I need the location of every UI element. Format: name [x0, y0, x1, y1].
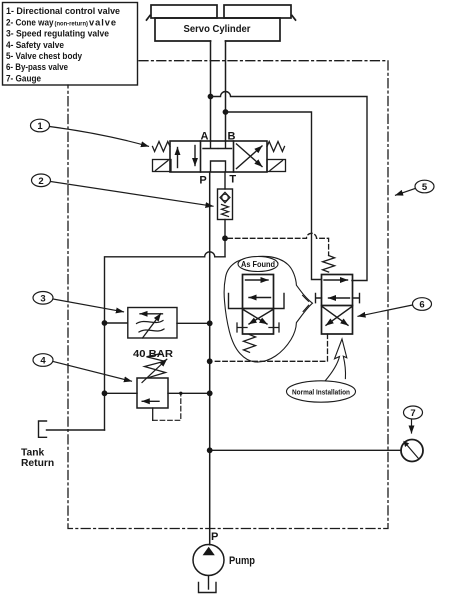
svg-text:3- Speed regulating valve: 3- Speed regulating valve: [6, 29, 109, 39]
port B T-bar: [219, 141, 232, 149]
port labels: [199, 131, 236, 187]
label 5: [415, 180, 434, 193]
wire B line (right cylinder pipe): [225, 41, 227, 141]
by-pass valve crossed arrows: [322, 307, 348, 326]
servo cylinder: [147, 5, 296, 41]
dashed drain from by-pass valve bottom: [213, 334, 328, 361]
safety valve U4: [137, 378, 168, 408]
label 2: [32, 174, 51, 187]
As Found valve port brackets: [229, 294, 285, 309]
by-pass valve right port T-bar: [353, 294, 360, 303]
blocked P T ports: [211, 161, 226, 172]
left solenoid: [153, 160, 172, 172]
Normal Installation callout arrow: [325, 339, 347, 381]
svg-text:1: 1: [37, 121, 43, 132]
svg-text:Normal Installation: Normal Installation: [292, 387, 350, 396]
by-pass valve mid flow arrow: [329, 297, 350, 299]
speed regulating valve U3: [105, 322, 128, 324]
svg-text:valve: valve: [89, 17, 116, 27]
Normal Installation bubble: [287, 381, 356, 402]
node gauge junction: [207, 447, 213, 453]
spring above by-pass valve: [323, 256, 335, 273]
wire pump to tank: [208, 576, 210, 590]
safety valve flow arrow: [142, 400, 159, 402]
node P line safety: [207, 390, 213, 396]
node check valve junction: [222, 235, 228, 241]
pump: [193, 545, 224, 576]
svg-text:5- Valve chest body: 5- Valve chest body: [6, 51, 83, 61]
dashed pilot line to by-pass valve spring: [228, 233, 329, 255]
As Found valve top flow arrow: [246, 279, 269, 281]
directional control valve U1 body: [170, 141, 267, 172]
svg-text:6- By-pass valve: 6- By-pass valve: [6, 62, 68, 72]
gauge line: [210, 449, 401, 451]
right spring: [267, 142, 285, 152]
svg-text:5: 5: [422, 182, 428, 193]
gauge G7: [401, 440, 423, 462]
node B-branch junction: [223, 109, 229, 115]
As Found blob: [224, 256, 312, 362]
wire A-branch with hop over B line: [211, 92, 368, 281]
speed valve adjust arrow: [143, 314, 161, 338]
wire below check valve: [224, 220, 226, 257]
wire T return horizontal with hop over P: [105, 252, 226, 430]
by-pass valve left port T-bar: [316, 294, 322, 303]
As Found valve mid flow arrow: [249, 297, 271, 299]
spring below As Found valve: [244, 335, 256, 353]
svg-text:P: P: [211, 531, 218, 543]
by-pass valve U6: [322, 275, 353, 335]
svg-text:B: B: [228, 131, 236, 143]
speed valve throttle curves: [137, 321, 165, 333]
node drain junction: [207, 358, 213, 364]
svg-text:6: 6: [419, 300, 424, 311]
tank return symbol: [39, 421, 47, 437]
label 6: [413, 298, 432, 311]
wire T line to check valve: [224, 172, 226, 189]
svg-text:A: A: [201, 131, 209, 143]
safety valve spring: [145, 354, 166, 378]
left position arrows: [177, 148, 179, 168]
legend box: [3, 3, 138, 86]
by-pass valve top flow arrow: [324, 279, 348, 281]
svg-text:7- Gauge: 7- Gauge: [6, 73, 41, 83]
wire P line main vertical: [209, 172, 211, 545]
speed valve flow arrow: [140, 313, 163, 315]
svg-text:2: 2: [38, 176, 43, 187]
svg-text:(non-return): (non-return): [55, 20, 89, 27]
port A T-bar: [203, 141, 218, 149]
svg-text:7: 7: [410, 408, 415, 419]
blob arrow barbs: [303, 295, 309, 311]
svg-text:1- Directional control valve: 1- Directional control valve: [6, 6, 120, 16]
svg-text:Servo Cylinder: Servo Cylinder: [184, 24, 251, 35]
right solenoid: [267, 160, 286, 172]
svg-text:4: 4: [40, 356, 46, 367]
label 7: [404, 406, 423, 419]
svg-text:Return: Return: [21, 458, 54, 469]
check valve C2 (cone way): [218, 189, 233, 220]
left spring: [153, 142, 170, 152]
wire B-branch: [226, 112, 322, 280]
label 3: [33, 292, 53, 305]
spring adjust arrow: [142, 359, 167, 382]
node speed valve left: [102, 320, 108, 326]
As Found valve: [243, 275, 274, 335]
pump tank symbol: [199, 583, 217, 593]
svg-text:4- Safety valve: 4- Safety valve: [6, 40, 64, 50]
node speed valve right on P line: [207, 320, 213, 326]
wire A line (left cylinder pipe): [210, 41, 212, 141]
gauge needle: [406, 443, 419, 458]
svg-text:T: T: [229, 174, 236, 186]
label 1: [31, 119, 50, 132]
As Found valve bottom port stubs: [237, 323, 279, 332]
As Found bubble: [238, 257, 278, 272]
safety valve connections: [105, 392, 138, 394]
As Found valve crossed arrows: [243, 310, 267, 325]
svg-text:40 BAR: 40 BAR: [133, 349, 173, 360]
svg-text:P: P: [199, 175, 206, 187]
valve chest body dash-dot border: [68, 61, 388, 529]
svg-text:3: 3: [40, 293, 45, 304]
node left branch safety: [102, 390, 108, 396]
svg-text:Pump: Pump: [229, 555, 255, 567]
crossed position X: [237, 146, 263, 169]
svg-text:As Found: As Found: [241, 260, 275, 269]
legend text: [6, 6, 120, 83]
safety valve drain loop: [152, 408, 154, 420]
node A-branch junction: [208, 94, 214, 100]
svg-text:2- Cone way: 2- Cone way: [6, 17, 54, 27]
label 4: [33, 354, 53, 367]
